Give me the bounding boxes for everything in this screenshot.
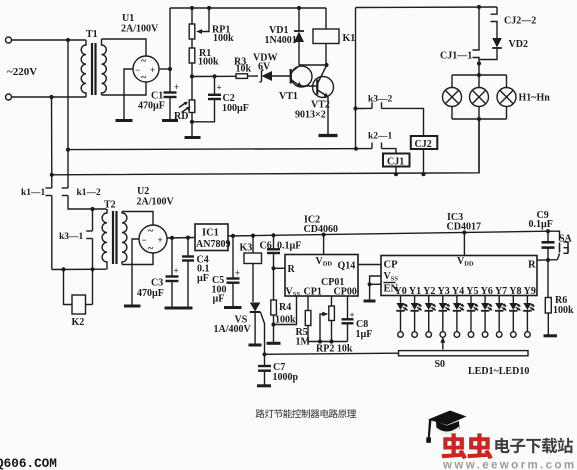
svg-text:U1: U1	[122, 13, 134, 24]
contact CJ2-2	[491, 7, 537, 38]
capacitor C8	[342, 296, 373, 342]
resistor R1	[189, 39, 219, 77]
svg-text:R4: R4	[279, 302, 291, 313]
wire R pin node	[537, 258, 558, 262]
svg-text:VD2: VD2	[509, 39, 528, 50]
resistor R4	[271, 268, 297, 343]
LED2	[410, 296, 422, 338]
capacitor C5	[212, 236, 241, 307]
svg-text:k3—2: k3—2	[368, 95, 393, 105]
svg-text:T2: T2	[104, 200, 116, 211]
LED8	[495, 296, 507, 338]
ground RD	[185, 122, 201, 138]
ground R6	[544, 334, 558, 337]
diode VD1	[265, 8, 305, 65]
node divider junction	[190, 74, 236, 78]
svg-text:RD: RD	[174, 111, 188, 122]
svg-text:2A/100V: 2A/100V	[121, 24, 159, 35]
svg-text:VT1: VT1	[279, 91, 298, 102]
svg-text:+: +	[217, 83, 222, 93]
diode VD2	[479, 38, 528, 60]
IC2 CD4060	[285, 215, 358, 299]
svg-text:CP00: CP00	[334, 287, 357, 298]
ground C5	[224, 306, 242, 309]
svg-text:1000p: 1000p	[273, 372, 299, 383]
LED1	[396, 296, 408, 338]
wire rail1 L	[68, 147, 372, 151]
potentiometer RP2	[316, 296, 353, 355]
wire mains L top-right rail	[356, 5, 498, 109]
svg-text:470µF: 470µF	[138, 101, 165, 112]
contact CJ1-1	[440, 7, 481, 66]
svg-text:CD4060: CD4060	[304, 224, 338, 235]
wire collector row	[299, 63, 329, 67]
ground C1	[162, 119, 178, 122]
wire Q14 to CP	[358, 264, 381, 266]
svg-text:CJ1: CJ1	[387, 157, 404, 168]
svg-text:k1—1: k1—1	[21, 188, 46, 198]
capacitor C3	[137, 238, 179, 307]
svg-text:S0: S0	[435, 359, 446, 370]
LED9	[509, 296, 521, 338]
svg-text:K1: K1	[343, 33, 356, 44]
svg-text:~220V: ~220V	[7, 66, 37, 78]
ground VS	[249, 344, 262, 347]
wire 9V rail	[228, 229, 550, 238]
svg-text:U2: U2	[137, 186, 149, 197]
contact k3-1	[59, 209, 95, 305]
wire U2 plus to IC1	[167, 236, 195, 240]
svg-text:CP: CP	[384, 260, 399, 271]
wire lower-left node	[52, 267, 107, 271]
potentiometer RP1	[189, 8, 234, 44]
contact k3-2	[356, 95, 424, 137]
svg-text:1A/400V: 1A/400V	[214, 324, 252, 335]
svg-text:6V: 6V	[258, 62, 271, 73]
capacitor C2	[192, 76, 249, 121]
svg-text:100k: 100k	[553, 305, 574, 316]
svg-text:µF: µF	[213, 294, 225, 305]
wire T2 secondary to U2	[122, 212, 153, 265]
wire C6 to R pin	[274, 267, 286, 269]
relay coil K2	[64, 269, 93, 328]
regulator IC1	[195, 224, 230, 251]
LED6	[467, 296, 479, 338]
svg-text:K2: K2	[72, 317, 85, 328]
wire L drop	[66, 40, 70, 188]
LED10	[523, 296, 535, 338]
svg-text:K3: K3	[240, 243, 253, 254]
svg-text:CJ2—2: CJ2—2	[504, 16, 536, 27]
svg-text:+: +	[158, 235, 163, 245]
wire DC+ top rail	[170, 6, 326, 10]
svg-text:~: ~	[141, 56, 147, 67]
resistor R3	[234, 57, 258, 79]
ground VT2	[319, 134, 338, 137]
svg-text:+: +	[150, 65, 155, 75]
svg-text:0.1µF: 0.1µF	[529, 219, 553, 230]
select bar S0	[265, 337, 530, 377]
thyristor VS	[214, 303, 267, 357]
capacitor C4	[182, 238, 210, 307]
wire N drop	[50, 97, 54, 188]
svg-text:470µF: 470µF	[137, 288, 164, 299]
svg-text:~: ~	[141, 73, 147, 84]
lamp group H1-Hn	[443, 64, 551, 174]
svg-text:+: +	[174, 266, 179, 276]
svg-text:k1—2: k1—2	[77, 188, 102, 198]
svg-text:100k: 100k	[198, 57, 219, 68]
svg-text:R: R	[528, 260, 536, 271]
logo 虫虫 red	[442, 433, 493, 459]
terminal input N	[6, 94, 87, 100]
contactor coil CJ2	[411, 136, 438, 174]
svg-text:C6: C6	[260, 241, 272, 252]
resistor R6	[545, 260, 574, 335]
svg-text:−: −	[135, 65, 140, 75]
svg-text:9013×2: 9013×2	[295, 110, 326, 121]
switch SA	[548, 231, 573, 259]
LED5	[453, 296, 465, 338]
contact k1-2	[62, 188, 107, 211]
ground IC3 VSS	[364, 300, 376, 303]
svg-text:+: +	[350, 310, 355, 320]
ground U1	[116, 119, 133, 122]
svg-text:IC1: IC1	[202, 228, 219, 239]
ground C3 C4	[165, 307, 193, 310]
resistor R5	[296, 296, 311, 348]
svg-text:100µF: 100µF	[222, 103, 249, 114]
svg-text:−: −	[142, 235, 147, 245]
wire U1 minus to ground	[124, 69, 133, 120]
wire VT1 emitter to VT2 base	[300, 85, 318, 87]
IC3 CD4017	[381, 212, 537, 297]
transistor VT2	[295, 66, 334, 135]
LED4	[439, 296, 451, 338]
svg-text:k2—1: k2—1	[368, 132, 393, 142]
ground U2	[124, 305, 141, 308]
LED7	[481, 296, 493, 338]
svg-text:www.eeworm.com: www.eeworm.com	[442, 460, 577, 470]
relay coil K3	[240, 236, 262, 302]
svg-text:LED1~LED10: LED1~LED10	[468, 366, 529, 377]
wire T1 secondary to U1	[102, 39, 147, 95]
svg-text:1N4001: 1N4001	[265, 35, 297, 46]
svg-text:R: R	[288, 264, 296, 275]
wire timing bus	[308, 339, 348, 343]
wire rail2 N	[52, 119, 479, 176]
svg-text:100k: 100k	[213, 33, 234, 44]
wire L branch vertical	[353, 106, 357, 148]
svg-text:AN7809: AN7809	[196, 239, 230, 250]
ground C7	[257, 384, 271, 387]
svg-text:10k: 10k	[236, 64, 252, 75]
capacitor C1	[138, 69, 179, 120]
bridge rectifier U2	[137, 186, 175, 255]
svg-text:Y0 Y1 Y2 Y3 Y4 Y5 Y6 Y7 Y8 Y9: Y0 Y1 Y2 Y3 Y4 Y5 Y6 Y7 Y8 Y9	[395, 286, 536, 297]
LED3	[425, 296, 437, 338]
contactor coil CJ1	[383, 154, 410, 175]
zener diode VDW	[253, 53, 291, 83]
svg-text:~: ~	[148, 226, 154, 237]
contact k2-1	[368, 132, 396, 154]
capacitor C9	[529, 210, 555, 260]
terminal input L	[6, 37, 87, 43]
svg-text:~: ~	[148, 244, 154, 255]
wire VSS EN to ground	[368, 276, 382, 301]
relay coil K1	[313, 8, 355, 65]
photoresistor RD	[174, 77, 195, 124]
svg-text:µF: µF	[197, 273, 209, 284]
logo 电子下载站	[495, 438, 573, 454]
svg-text:Q14: Q14	[338, 261, 356, 272]
capacitor C7	[258, 354, 299, 385]
transformer T1	[81, 29, 106, 97]
logo graduation cap	[426, 411, 466, 443]
contact k1-1	[21, 188, 52, 270]
svg-text:CP1: CP1	[304, 287, 322, 298]
svg-text:CJ2: CJ2	[415, 139, 432, 150]
bridge rectifier U1	[121, 13, 159, 84]
wire U1 plus node	[159, 8, 172, 71]
svg-text:0.1µF: 0.1µF	[277, 241, 301, 252]
caption 路灯节能控制器电路原理	[256, 409, 356, 418]
svg-text:2A/100V: 2A/100V	[137, 197, 175, 208]
svg-text:T1: T1	[86, 29, 98, 40]
svg-text:C3: C3	[151, 278, 163, 289]
svg-text:Q606.COM: Q606.COM	[0, 456, 57, 470]
ground R4	[267, 342, 281, 345]
svg-text:CD4017: CD4017	[447, 222, 481, 233]
node L junction	[66, 38, 70, 42]
svg-text:+: +	[174, 82, 179, 92]
svg-text:1µF: 1µF	[356, 329, 373, 340]
transformer T2	[102, 200, 127, 270]
wire U2 minus to ground	[132, 239, 139, 305]
svg-text:k3—1: k3—1	[59, 232, 84, 242]
svg-text:H1~Hn: H1~Hn	[519, 93, 551, 104]
svg-text:100k: 100k	[275, 315, 296, 326]
svg-text:CJ1—1: CJ1—1	[440, 51, 472, 62]
capacitor C6	[260, 235, 302, 270]
node N junction	[49, 95, 53, 99]
transistor VT1	[279, 66, 312, 102]
svg-text:RP2 10k: RP2 10k	[316, 344, 353, 355]
svg-text:SA: SA	[559, 234, 573, 245]
svg-text:+: +	[235, 268, 240, 278]
